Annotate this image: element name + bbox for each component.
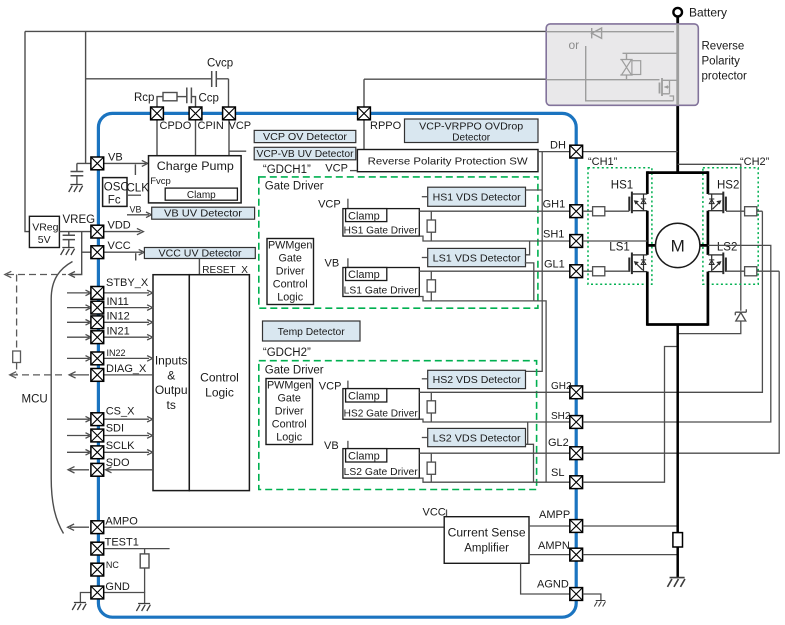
svg-text:“GDCH1”: “GDCH1” bbox=[263, 164, 311, 176]
svg-text:HS1: HS1 bbox=[611, 179, 633, 191]
transistor LS2 bbox=[708, 253, 726, 275]
wire LS1 VDS to source rail bbox=[525, 263, 534, 301]
wire HS1 VDS to DH rail bbox=[526, 189, 543, 191]
svg-text:LS1 Gate Driver: LS1 Gate Driver bbox=[344, 286, 419, 297]
battery terminal bbox=[673, 8, 682, 17]
inputs outputs box bbox=[153, 275, 189, 491]
charge pump box bbox=[149, 156, 242, 203]
HS2 gate driver box bbox=[343, 389, 419, 420]
wire Rcp right lead bbox=[177, 96, 187, 98]
pin STBY_X bbox=[91, 287, 104, 300]
wire DH pin right to battery line bbox=[583, 151, 678, 153]
svg-text:Ccp: Ccp bbox=[199, 93, 219, 105]
svg-text:Logic: Logic bbox=[277, 292, 303, 304]
wire GND left bbox=[80, 593, 91, 603]
LS1 VDS detector box bbox=[428, 248, 526, 266]
pin NC bbox=[91, 563, 104, 576]
wire amplifier to AMPP bbox=[529, 525, 570, 527]
svg-text:IN11: IN11 bbox=[107, 296, 129, 308]
svg-text:Polarity: Polarity bbox=[702, 56, 741, 68]
pin IN11 bbox=[91, 301, 104, 314]
pin IN22 bbox=[91, 352, 104, 365]
HS1 gate driver box bbox=[343, 209, 419, 237]
input row IN22 bbox=[67, 356, 153, 362]
input row IN11 bbox=[67, 305, 153, 311]
svg-text:Clamp: Clamp bbox=[348, 391, 380, 403]
pin SH2 bbox=[570, 416, 583, 429]
LS2 gate driver box bbox=[343, 449, 419, 479]
svg-text:Rcp: Rcp bbox=[134, 92, 154, 104]
pin CS_X bbox=[91, 413, 104, 426]
svg-text:SL: SL bbox=[551, 467, 564, 479]
svg-text:Gate Driver: Gate Driver bbox=[265, 365, 324, 377]
CH2 dotted box bbox=[703, 168, 758, 284]
svg-text:VCP: VCP bbox=[325, 163, 348, 175]
bridge frame left segments bbox=[646, 171, 649, 325]
svg-text:VCP: VCP bbox=[229, 120, 252, 132]
VCP-VRPPO OVDrop detector box bbox=[405, 119, 539, 143]
wire TEST1 bbox=[104, 548, 170, 550]
wire amplifier to AGND bbox=[521, 563, 570, 594]
wire VB tick GDCH1 bbox=[347, 258, 349, 267]
svg-text:Logic: Logic bbox=[205, 385, 234, 399]
ground at GND right bbox=[136, 604, 150, 612]
wire GH2 route bbox=[583, 211, 763, 392]
svg-text:Outpu: Outpu bbox=[155, 383, 188, 397]
bridge frame right segments bbox=[707, 171, 710, 325]
clamp box HS1 bbox=[346, 209, 387, 222]
svg-text:CS_X: CS_X bbox=[106, 405, 135, 417]
svg-text:Detector: Detector bbox=[452, 132, 490, 143]
pin SDO bbox=[91, 463, 104, 476]
wire LS1 source to SL bbox=[534, 301, 546, 482]
wire CLK stub bbox=[127, 194, 141, 196]
wire CPIN pin to charge pump bbox=[195, 119, 197, 156]
svg-text:CPDO: CPDO bbox=[160, 120, 192, 132]
PWMgen box GDCH1 bbox=[267, 239, 314, 305]
svg-text:VB: VB bbox=[324, 440, 339, 452]
VB UV detector box bbox=[152, 207, 255, 219]
LS2 VDS detector box bbox=[428, 428, 526, 446]
resistor HS2 gate bbox=[430, 392, 432, 422]
svg-text:AMPN: AMPN bbox=[538, 540, 570, 552]
svg-text:&: & bbox=[167, 368, 175, 382]
resistor LS2 gate external bbox=[726, 267, 779, 276]
svg-text:VCP OV Detector: VCP OV Detector bbox=[263, 132, 348, 143]
svg-text:Gate: Gate bbox=[277, 393, 300, 405]
resistor Rcp bbox=[163, 93, 177, 101]
svg-text:SCLK: SCLK bbox=[106, 440, 135, 452]
svg-text:VB: VB bbox=[325, 258, 340, 270]
svg-text:MCU: MCU bbox=[22, 394, 48, 406]
svg-text:AMPP: AMPP bbox=[539, 509, 570, 521]
svg-text:VB: VB bbox=[130, 205, 142, 215]
svg-text:Temp Detector: Temp Detector bbox=[278, 327, 346, 338]
HS2 VDS detector box bbox=[428, 370, 526, 388]
pin AGND bbox=[570, 588, 583, 601]
wire left rail down to VReg bbox=[25, 31, 29, 231]
svg-text:HS1 VDS Detector: HS1 VDS Detector bbox=[433, 192, 521, 204]
reverse polarity protector diode option bbox=[546, 28, 674, 38]
pin DH bbox=[570, 145, 583, 158]
PWMgen box GDCH2 bbox=[266, 379, 313, 445]
wire VCC tick into amplifier bbox=[446, 510, 448, 517]
wire AGND pin to ground bbox=[583, 594, 601, 601]
reverse polarity protection SW box bbox=[357, 150, 538, 172]
pin SL bbox=[570, 476, 583, 489]
pin VCP bbox=[223, 107, 236, 120]
reverse polarity protector internal rail bbox=[676, 24, 679, 105]
pin AMPP bbox=[570, 520, 583, 533]
wire VB tick GDCH2 bbox=[347, 441, 349, 449]
pin TEST1 bbox=[91, 542, 104, 555]
input row CS_X bbox=[67, 416, 153, 422]
svg-text:Fc: Fc bbox=[108, 194, 121, 206]
input row IN21 bbox=[67, 334, 153, 340]
wire VB pin to charge pump with arrow bbox=[104, 162, 146, 164]
wire amplifier to AMPN bbox=[529, 554, 570, 556]
motor circle bbox=[656, 223, 700, 267]
svg-text:VDD: VDD bbox=[108, 220, 131, 232]
svg-text:PWMgen: PWMgen bbox=[268, 240, 312, 252]
wire SL rail bbox=[419, 478, 570, 482]
svg-text:LS2 Gate Driver: LS2 Gate Driver bbox=[344, 467, 419, 478]
HS1 VDS detector box bbox=[428, 187, 526, 206]
control logic box bbox=[189, 275, 249, 491]
resistor HS1 gate external bbox=[583, 207, 630, 216]
VCP-VB UV detector box bbox=[254, 147, 356, 160]
svg-text:GH2: GH2 bbox=[551, 381, 572, 392]
wire CPDO pin to charge pump bbox=[156, 119, 158, 156]
svg-text:“CH2”: “CH2” bbox=[740, 156, 770, 168]
motor stubs bbox=[647, 244, 708, 247]
wire swoosh VCC to MCU area bbox=[51, 262, 72, 534]
svg-text:LS2: LS2 bbox=[717, 242, 737, 254]
svg-text:Gate: Gate bbox=[278, 253, 301, 265]
svg-text:Driver: Driver bbox=[275, 406, 304, 418]
svg-text:HS2 VDS Detector: HS2 VDS Detector bbox=[433, 374, 521, 386]
wire AMPP to sense line bbox=[583, 525, 678, 527]
svg-text:Gate Driver: Gate Driver bbox=[265, 181, 324, 193]
svg-text:SDI: SDI bbox=[106, 423, 124, 435]
wire SH1 to LS1 VDS bbox=[526, 241, 530, 255]
svg-text:Control: Control bbox=[272, 419, 307, 431]
label PWMgen control logic GDCH1 bbox=[268, 240, 312, 304]
wire VB rail (line B) bbox=[86, 78, 547, 80]
ground at VB cap bbox=[69, 185, 83, 193]
capacitor at VB bbox=[71, 172, 84, 176]
svg-text:Control: Control bbox=[273, 279, 308, 291]
svg-text:Amplifier: Amplifier bbox=[464, 543, 509, 555]
wire LS1 source rail bbox=[419, 297, 534, 301]
resistor at TEST1 bbox=[144, 549, 146, 593]
wire VCP drop from VB rail bbox=[228, 79, 230, 107]
svg-text:“GDCH2”: “GDCH2” bbox=[263, 347, 311, 359]
svg-text:GH1: GH1 bbox=[543, 198, 566, 210]
wire VREG cap to ground bbox=[68, 240, 70, 248]
wire LS2 VDS stub left bbox=[422, 437, 428, 439]
svg-text:“CH1”: “CH1” bbox=[588, 156, 618, 168]
svg-text:HS2: HS2 bbox=[717, 179, 739, 191]
pin AMPO bbox=[91, 521, 104, 534]
wire VB branch tick bbox=[134, 164, 136, 175]
svg-text:protector: protector bbox=[702, 71, 748, 83]
wire sense line lower bbox=[676, 547, 679, 578]
temp detector box bbox=[263, 321, 361, 341]
svg-text:IN21: IN21 bbox=[107, 325, 130, 337]
svg-text:CLK: CLK bbox=[127, 183, 150, 195]
pin GL2 bbox=[570, 447, 583, 460]
CH1 dotted box bbox=[588, 168, 652, 284]
svg-text:VREG: VREG bbox=[63, 214, 96, 226]
resistor HS1 gate bbox=[430, 211, 432, 241]
svg-text:LS1: LS1 bbox=[609, 242, 629, 254]
wire DH pin left bbox=[538, 151, 570, 153]
VCC UV detector box bbox=[144, 248, 255, 259]
pin VCC bbox=[91, 246, 104, 259]
wire RPPO pin to protection SW box bbox=[363, 79, 365, 149]
wire Rcp left lead to CPDO bbox=[157, 97, 163, 107]
label PWMgen control logic GDCH2 bbox=[267, 380, 311, 444]
oscillator box OSC Fc bbox=[103, 178, 127, 207]
resistor LS2 gate bbox=[430, 453, 432, 482]
input row SDI bbox=[67, 433, 153, 439]
svg-text:SH1: SH1 bbox=[543, 229, 564, 241]
pin SDI bbox=[91, 429, 104, 442]
pin AMPN bbox=[570, 548, 583, 561]
clamp box HS2 bbox=[346, 389, 387, 402]
pin GND bbox=[91, 586, 104, 599]
svg-text:SH2: SH2 bbox=[551, 411, 571, 422]
wire GH1 gate rail bbox=[419, 210, 570, 212]
svg-text:PWMgen: PWMgen bbox=[267, 380, 311, 392]
output row AMPO bbox=[68, 524, 445, 530]
pin SCLK bbox=[91, 446, 104, 459]
wire LS2 VDS to SL rail bbox=[526, 444, 534, 482]
wire HS2 VDS stub left bbox=[422, 378, 428, 380]
reverse polarity protector mosfet branch bbox=[546, 46, 678, 101]
pin CPDO bbox=[151, 107, 164, 120]
clamp box LS1 bbox=[346, 268, 387, 281]
input row STBY_X bbox=[67, 290, 153, 296]
svg-text:Charge Pump: Charge Pump bbox=[157, 159, 234, 173]
wire SH2 rail bbox=[419, 419, 570, 422]
gate driver GDCH1 dashed box bbox=[259, 177, 538, 308]
wire GND right bbox=[104, 593, 145, 604]
wire VCP to protection SW bbox=[350, 170, 357, 172]
svg-text:Battery: Battery bbox=[689, 6, 727, 20]
wire AMPN to sense line bbox=[583, 554, 678, 556]
svg-text:SDO: SDO bbox=[106, 457, 130, 469]
zener diode clamp bbox=[735, 309, 746, 321]
MCU series box bbox=[13, 351, 21, 363]
svg-text:NC: NC bbox=[106, 560, 119, 570]
svg-text:HS1 Gate Driver: HS1 Gate Driver bbox=[344, 225, 419, 236]
svg-text:AGND: AGND bbox=[537, 578, 569, 590]
svg-text:OSC: OSC bbox=[104, 181, 129, 193]
resistor LS1 gate bbox=[430, 271, 432, 301]
svg-text:Control: Control bbox=[200, 371, 239, 385]
wire VCP pin to charge pump with stub bbox=[229, 119, 246, 156]
pin GL1 bbox=[570, 265, 583, 278]
svg-text:LS1 VDS Detector: LS1 VDS Detector bbox=[433, 252, 522, 264]
svg-text:DH: DH bbox=[550, 139, 566, 151]
pin GH2 bbox=[570, 386, 583, 399]
svg-text:Cvcp: Cvcp bbox=[207, 58, 233, 70]
svg-text:Clamp: Clamp bbox=[348, 210, 380, 222]
pin GH1 bbox=[570, 205, 583, 218]
capacitor at VREG bbox=[63, 235, 75, 239]
svg-text:Reverse Polarity Protection SW: Reverse Polarity Protection SW bbox=[368, 156, 528, 168]
wire RESET_X bbox=[198, 259, 200, 275]
wire VDD arrow right bbox=[104, 231, 141, 233]
wire VCC pin left bbox=[82, 251, 91, 253]
IC boundary (blue rounded rect) bbox=[98, 113, 576, 617]
svg-text:Reverse: Reverse bbox=[702, 41, 745, 53]
svg-text:RPPO: RPPO bbox=[370, 120, 402, 132]
svg-text:VCP-VRPPO OVDrop: VCP-VRPPO OVDrop bbox=[419, 122, 523, 133]
pin DIAG_X bbox=[91, 369, 104, 382]
clamp box LS2 bbox=[346, 449, 387, 462]
MCU dashed vertical lower bbox=[11, 363, 66, 375]
wire VCP tick GDCH2 bbox=[347, 381, 349, 389]
svg-text:VCC: VCC bbox=[108, 240, 131, 252]
wire VCC node down from VDD rail bbox=[71, 232, 82, 275]
wire SL route bbox=[583, 347, 678, 483]
wire battery thick line to protector bbox=[676, 17, 679, 25]
svg-text:VB UV Detector: VB UV Detector bbox=[164, 208, 243, 219]
wire LS1 VDS stub left bbox=[422, 257, 428, 259]
ground at AGND bbox=[594, 601, 605, 607]
pin SH1 bbox=[570, 235, 583, 248]
transistor LS1 bbox=[629, 253, 647, 275]
current sense amplifier box bbox=[444, 517, 529, 564]
wire SH1 rail bbox=[419, 236, 570, 241]
resistor HS2 gate external bbox=[726, 207, 762, 216]
svg-text:or: or bbox=[569, 38, 580, 52]
pin IN21 bbox=[91, 331, 104, 344]
VCP OV detector box bbox=[254, 130, 356, 142]
gate driver GDCH2 dashed box bbox=[259, 361, 537, 490]
bridge frame top bbox=[647, 171, 708, 174]
wire VB rail drop to VB pin bbox=[85, 31, 87, 163]
output row SDO bbox=[68, 467, 153, 473]
svg-text:DIAG_X: DIAG_X bbox=[106, 363, 147, 375]
wire VB pin left to decoupling cap bbox=[77, 163, 91, 171]
svg-text:Clamp: Clamp bbox=[187, 190, 216, 201]
svg-text:VCP: VCP bbox=[319, 381, 342, 393]
clamp box in charge pump bbox=[165, 188, 237, 200]
svg-text:GL2: GL2 bbox=[548, 437, 569, 449]
wire VREG cap branch bbox=[68, 232, 70, 236]
pin VB bbox=[91, 157, 104, 170]
MCU dashed wire top bbox=[7, 274, 66, 276]
pin CPIN bbox=[189, 107, 202, 120]
svg-text:Inputs: Inputs bbox=[155, 354, 188, 368]
svg-text:VReg: VReg bbox=[32, 221, 58, 233]
resistor current sense bbox=[673, 533, 683, 547]
wire SH2 route bbox=[583, 245, 771, 422]
svg-text:IN22: IN22 bbox=[107, 348, 126, 358]
svg-text:VCP-VB UV Detector: VCP-VB UV Detector bbox=[257, 149, 355, 160]
resistor LS1 gate external bbox=[583, 267, 630, 276]
wire VCP tick GDCH1 bbox=[347, 199, 349, 209]
wire battery tap to zener bbox=[678, 164, 741, 310]
wire DH vertical rail bbox=[526, 152, 543, 372]
input row SCLK bbox=[67, 450, 153, 456]
svg-text:GL1: GL1 bbox=[544, 258, 565, 270]
wire VB to VB UV detector bbox=[127, 214, 149, 216]
svg-text:VCP: VCP bbox=[318, 199, 341, 211]
ground at sense line bbox=[667, 578, 685, 587]
wire battery top rail (line A) bbox=[25, 30, 546, 32]
svg-text:STBY_X: STBY_X bbox=[106, 277, 149, 289]
ground at VREG cap bbox=[61, 248, 75, 256]
svg-text:Current Sense: Current Sense bbox=[448, 528, 526, 540]
input row IN12 bbox=[67, 320, 153, 326]
svg-text:Fvcp: Fvcp bbox=[150, 176, 171, 187]
pin VDD bbox=[91, 225, 104, 238]
wire VCC to VCC UV detector bbox=[104, 251, 142, 253]
output row DIAG_X bbox=[69, 372, 153, 378]
wire GL2 route bbox=[583, 271, 780, 453]
bridge frame bottom bbox=[647, 323, 708, 326]
wire cap to ground bbox=[76, 176, 78, 185]
wire HS1 VDS stub left bbox=[422, 196, 428, 198]
svg-text:HS2 Gate Driver: HS2 Gate Driver bbox=[344, 408, 419, 419]
VReg box bbox=[29, 216, 59, 247]
wire VReg to VDD pin bbox=[59, 231, 91, 233]
svg-text:AMPO: AMPO bbox=[105, 515, 138, 527]
wire GH2 gate rail bbox=[419, 391, 570, 393]
MCU dashed vertical bbox=[16, 275, 18, 352]
capacitor Ccp bbox=[187, 88, 192, 104]
pin IN12 bbox=[91, 316, 104, 329]
svg-text:IN12: IN12 bbox=[107, 311, 130, 323]
svg-text:5V: 5V bbox=[38, 234, 51, 246]
wire GL2 gate rail bbox=[419, 452, 570, 454]
svg-text:VCC UV Detector: VCC UV Detector bbox=[159, 248, 243, 259]
LS1 gate driver box bbox=[343, 268, 419, 297]
svg-text:LS2 VDS Detector: LS2 VDS Detector bbox=[433, 432, 522, 444]
ground at GND left bbox=[72, 603, 86, 611]
reverse polarity protector box bbox=[546, 24, 698, 105]
svg-text:GND: GND bbox=[105, 581, 129, 593]
svg-text:VB: VB bbox=[108, 152, 123, 164]
svg-text:TEST1: TEST1 bbox=[105, 537, 139, 549]
transistor HS2 bbox=[708, 192, 726, 214]
wire battery thick line protector to bridge bbox=[676, 105, 679, 172]
transistor HS1 bbox=[629, 192, 647, 214]
svg-text:VCC: VCC bbox=[423, 507, 446, 519]
wire GL1 gate rail bbox=[419, 270, 570, 272]
wire Ccp right lead to CPIN bbox=[191, 97, 195, 107]
svg-text:Driver: Driver bbox=[276, 266, 305, 278]
svg-text:ts: ts bbox=[167, 398, 176, 412]
svg-text:Logic: Logic bbox=[276, 432, 302, 444]
wire zener to sense line bbox=[678, 321, 741, 334]
svg-text:Clamp: Clamp bbox=[348, 451, 380, 463]
capacitor Cvcp bbox=[212, 71, 217, 87]
pin RPPO bbox=[358, 107, 371, 120]
wire VCC branch tick bbox=[135, 253, 137, 260]
svg-text:M: M bbox=[671, 236, 685, 255]
svg-text:Clamp: Clamp bbox=[348, 269, 380, 281]
wire SH1 to bridge bbox=[583, 240, 648, 242]
wire sense line upper bbox=[676, 325, 679, 533]
wire SH2 to LS2 VDS bbox=[526, 422, 528, 444]
svg-text:CPIN: CPIN bbox=[198, 120, 224, 132]
